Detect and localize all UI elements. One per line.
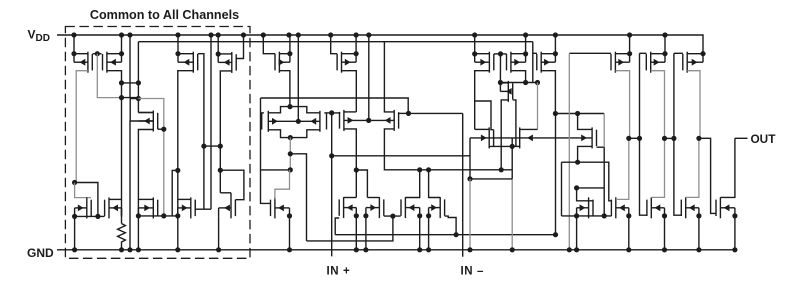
transistor N5 — [219, 197, 236, 218]
wire Tc source to GND — [664, 216, 666, 250]
wire P1 drain — [76, 71, 88, 183]
node GND c2 — [363, 247, 368, 252]
wire Te drain riser — [720, 138, 735, 197]
VDD rail junction x=178 — [175, 32, 180, 37]
wire N5 gate from P4 drain — [220, 170, 244, 200]
wire P11 drain down — [651, 71, 665, 139]
wire P5 drain down — [279, 71, 290, 106]
svg-text:IN +: IN + — [327, 266, 351, 278]
transistor T_b — [611, 197, 628, 218]
IN+ label — [327, 266, 351, 278]
wire N1 drain to gate bus — [75, 183, 98, 217]
VDD rail junction x=74 — [71, 32, 76, 37]
node GND tc — [662, 247, 667, 252]
wire M10 source — [578, 146, 593, 162]
node GND d1 — [417, 247, 422, 252]
node IN+ gates — [329, 110, 334, 115]
wire M6 gate link — [513, 100, 516, 130]
wire C1 gate down — [335, 218, 339, 235]
node M6 drain fold — [499, 167, 504, 172]
wire N1 gate loop — [75, 183, 91, 198]
wire C2 gate bus — [384, 215, 401, 217]
wire M8 gate riser — [475, 101, 494, 130]
wire N6 drain up — [275, 170, 290, 200]
node P9 source — [553, 51, 558, 56]
wire mirror link c — [665, 137, 674, 139]
wire VDD to P7 — [474, 35, 476, 54]
VDD rail junction x=243.5 — [241, 32, 246, 37]
node GND tb — [626, 247, 631, 252]
node GND d2 — [426, 247, 431, 252]
transistor N2 — [105, 197, 122, 218]
wire P5 gate drop — [263, 35, 275, 54]
wire IN- cross wire — [261, 98, 409, 113]
node M10 source — [575, 160, 580, 165]
svg-text:IN –: IN – — [461, 266, 485, 278]
node fold b — [288, 167, 293, 172]
wire link y97.6 — [122, 97, 139, 99]
wire P10 gate — [569, 52, 611, 54]
resistor R1 — [118, 224, 126, 244]
node P12 source — [700, 51, 705, 56]
VDD rail junction x=474.7 — [472, 32, 477, 37]
wire M5 source lead — [137, 99, 139, 113]
wire mirror col b — [639, 53, 641, 138]
wire VDD drop pair B — [368, 35, 370, 120]
transistor Q_B2 — [369, 110, 399, 131]
wire VDD to P5 source — [289, 35, 291, 54]
wire fold bus y155.8 — [332, 155, 470, 157]
wire B2 top — [384, 42, 394, 112]
wire D2 source to GND — [428, 216, 430, 250]
node P3 gate link a — [201, 144, 206, 149]
node P3 gate link b — [218, 144, 223, 149]
node Tc source — [662, 213, 667, 218]
node C1 source — [354, 213, 359, 218]
transistor Q_A2 — [298, 111, 326, 132]
wire M5 drain down — [138, 130, 153, 216]
wire Td drain riser — [686, 138, 699, 197]
node Td source — [696, 213, 701, 218]
OUT label — [751, 132, 777, 146]
wire mirror bus y82 — [500, 82, 537, 84]
transistor P1 — [74, 52, 92, 73]
node P8 drain — [523, 80, 528, 85]
VDD rail junction x=211 — [208, 32, 213, 37]
wire M6 drain down — [501, 100, 508, 170]
transistor T_c — [647, 197, 665, 218]
node in- mirror tap — [467, 176, 472, 181]
wire P6 drain down — [342, 71, 357, 112]
wire M6 source riser — [499, 54, 501, 83]
node pair A bottom — [288, 135, 293, 140]
transistor M9 — [516, 127, 520, 148]
node GND ta — [574, 247, 579, 252]
node M10 drain — [575, 111, 580, 116]
wire y162 bus — [562, 162, 612, 201]
wire gate col top — [603, 114, 605, 148]
VDD rail junction x=218.2 — [216, 32, 221, 37]
VDD rail junction x=121.5 — [119, 32, 124, 37]
node GND bias col — [127, 247, 132, 252]
transistor P5 — [275, 52, 290, 73]
GND rail — [57, 249, 737, 251]
wire VDD column x211 — [210, 35, 212, 209]
wire bias wire drop — [532, 42, 534, 83]
wire P4 gate to VDD — [236, 35, 243, 59]
node D2 drain — [426, 167, 431, 172]
wire P9 drain down — [541, 71, 555, 114]
wire VDD bias column — [129, 35, 131, 98]
node fold a — [288, 151, 293, 156]
wire VDD to P8 — [525, 35, 527, 54]
node M6 source — [498, 80, 503, 85]
node C drains — [354, 167, 359, 172]
wire M8 drain lead — [475, 128, 490, 130]
wire B1 bottom chain — [344, 129, 356, 198]
transistor Q_D1 — [401, 197, 420, 218]
GND label — [27, 246, 54, 260]
transistor N6 — [271, 197, 290, 218]
wire P12 gate — [674, 52, 683, 54]
node GND p10gate — [567, 247, 572, 252]
wire fold to bus — [290, 154, 306, 241]
node M9 drain tap — [535, 80, 540, 85]
wire N4 source to GND — [177, 216, 179, 250]
wire N4 gate link — [195, 208, 211, 210]
node M5 gate — [161, 127, 166, 132]
transistor Q_D2 — [429, 197, 445, 218]
node GND n3 — [136, 247, 141, 252]
wire M5 gate tap — [158, 128, 164, 130]
wire VDD drop pair A — [297, 35, 299, 121]
wire N4 gate bar drop — [194, 200, 196, 210]
transistor P8 — [507, 52, 526, 73]
wire resistor to GND — [121, 244, 123, 250]
wire D2 drain lead — [429, 170, 441, 198]
wire N3 source bus — [138, 215, 177, 217]
wire P7 drain down — [475, 71, 490, 130]
node GND td — [696, 247, 701, 252]
node mirror b2 — [637, 136, 642, 141]
wire A1 gate column — [261, 98, 271, 203]
wire P3 drain down — [178, 71, 194, 216]
node P3 source — [175, 51, 180, 56]
wire mirror col c — [673, 53, 675, 138]
wire C1 drain lead — [344, 197, 357, 199]
wire gate node down — [97, 54, 121, 98]
wire cross link y82.9 — [122, 82, 139, 84]
wire P10 drain down — [615, 71, 629, 139]
svg-text:OUT: OUT — [751, 132, 777, 146]
wire Ta drain to gate bus — [577, 187, 605, 189]
node mirror c2 — [671, 136, 676, 141]
node bias bus end — [553, 232, 558, 237]
wire C drain link — [356, 170, 367, 198]
wire C1 source to GND — [355, 216, 357, 250]
wire N5 drain lead — [220, 192, 231, 194]
wire fold left — [261, 169, 291, 171]
wire IN- top wire — [409, 112, 463, 114]
svg-text:Common to All Channels: Common to All Channels — [90, 8, 239, 22]
wire B1 gate — [332, 112, 340, 113]
wire P9 gate — [533, 52, 537, 54]
node out mirror — [696, 136, 701, 141]
node M8M9 source — [510, 144, 515, 149]
node N3 source — [136, 213, 141, 218]
node P8 source — [523, 51, 528, 56]
wire N3 gate stub — [172, 170, 178, 216]
node P11 source — [662, 51, 667, 56]
wire Td source to GND — [698, 216, 700, 250]
wire out mirror link — [699, 138, 716, 213]
wire C2 drain lead — [367, 197, 379, 199]
wire mirror col c low — [674, 138, 681, 215]
long bias wire — [138, 41, 532, 43]
wire VDD to P6 source — [355, 35, 357, 54]
node N6 source — [287, 213, 292, 218]
transistor N1 — [75, 197, 92, 218]
node N1 drain — [72, 180, 77, 185]
node mirror b1 — [626, 136, 631, 141]
wire VDD to P3 source — [177, 35, 179, 54]
wire tail to GND — [511, 179, 513, 250]
wire M8M9 body link — [511, 138, 513, 147]
node GND n6 — [287, 247, 292, 252]
VDD rail junction x=263.3 — [261, 32, 266, 37]
node GND resistor — [119, 247, 124, 252]
transistor P11 — [646, 52, 665, 73]
node GND c1 — [354, 247, 359, 252]
node D1 source — [417, 213, 422, 218]
wire P7 gate — [494, 53, 501, 55]
wire N3 drain lead — [138, 198, 153, 200]
wire pair A bottom bridge — [268, 130, 320, 138]
body wire M8 M9 M10 — [470, 135, 592, 179]
wire B2 gate — [399, 112, 409, 114]
wire C2 source to GND — [365, 216, 367, 250]
node P2 source — [119, 51, 124, 56]
wire P10 gate col — [568, 53, 570, 250]
wire Ta source to GND — [576, 216, 578, 250]
transistor P2 — [103, 52, 122, 73]
node mirror c1 — [662, 136, 667, 141]
wire P3 gate down — [198, 54, 204, 210]
transistor T_a — [577, 197, 593, 218]
wire P11 gate — [640, 52, 647, 54]
wire N2 tie corner — [121, 208, 123, 224]
node GND te — [732, 247, 737, 252]
transistor M5 — [138, 111, 157, 132]
wire N3 source to GND — [137, 216, 139, 250]
wire bias column to GND — [129, 121, 131, 250]
VDD rail junction x=289 — [286, 32, 291, 37]
transistor P3 — [178, 52, 198, 73]
node N1 source — [72, 214, 77, 219]
wire D2 gate jog — [445, 216, 457, 235]
wire B1 top — [344, 111, 356, 113]
transistor Q_C1 — [339, 197, 356, 218]
wire N1 source to GND — [74, 216, 76, 249]
node C2 source — [363, 213, 368, 218]
wire y178 link — [470, 178, 512, 180]
transistor P4 — [218, 52, 236, 73]
transistor P6 — [337, 52, 356, 73]
transistor Q_B1 — [340, 110, 369, 131]
node P4 drain cascode — [218, 168, 223, 173]
wire M9 drain riser — [537, 83, 539, 130]
transistor Q_C2 — [366, 197, 384, 218]
wire N4 drain lead — [178, 198, 191, 200]
wire P12 drain down — [687, 71, 700, 139]
wire Tb source to GND — [628, 216, 630, 250]
node GND n5 — [216, 247, 221, 252]
wire VDD to P4 source — [217, 35, 219, 54]
wire Tc drain riser — [651, 138, 664, 197]
wire N1 source bus — [75, 215, 105, 217]
wire M5 body tie — [130, 99, 153, 122]
node cc top — [553, 111, 558, 116]
VDD rail junction x=356.1 — [354, 32, 359, 37]
node P4 source — [216, 51, 221, 56]
VDD rail — [57, 35, 703, 54]
wire A2 gate — [324, 112, 331, 114]
node GND tail — [510, 247, 515, 252]
node P1 source — [71, 51, 76, 56]
node D1 drain — [417, 167, 422, 172]
transistor M10 — [592, 127, 596, 148]
wire VDD to P2 source — [121, 35, 123, 54]
node D2 source — [426, 213, 431, 218]
node CD gate bus — [390, 214, 395, 219]
wire P8 gate — [501, 53, 507, 55]
wire OUT stub — [735, 137, 748, 139]
wire VDD to P11 — [664, 35, 666, 54]
wire N5 drain corner — [230, 193, 232, 198]
wire A1 gate tap — [261, 112, 264, 114]
VDD rail junction x=130 — [127, 32, 132, 37]
node pair A top — [287, 104, 292, 109]
dashed box common block — [65, 27, 250, 259]
wire P2 drain down — [107, 71, 122, 216]
VDD rail junction x=525.6 — [523, 32, 528, 37]
node Tb source — [626, 213, 631, 218]
transistor M6 — [500, 81, 512, 102]
node P1 P2 gate — [95, 51, 100, 56]
transistor N3 — [138, 197, 157, 218]
wire D1 source to GND — [419, 216, 421, 250]
transistor P10 — [611, 52, 630, 73]
wire bias wire top corner — [137, 42, 139, 99]
svg-text:GND: GND — [27, 246, 54, 260]
VDD rail junction x=330.7 — [328, 32, 333, 37]
node GND tap — [467, 247, 472, 252]
wire VDD to P1 source — [73, 35, 75, 54]
IN- label — [461, 266, 485, 278]
node P7P8 gate — [498, 51, 503, 56]
wire Ta gate loop — [577, 188, 594, 201]
wire M5 gate chain — [138, 99, 163, 216]
wire cc bus — [555, 113, 604, 115]
wire cc bus tail — [555, 114, 557, 235]
wire M10 drain lead — [578, 114, 593, 130]
node P2 drain y97.6 — [119, 95, 124, 100]
wire N6 source to GND — [289, 216, 291, 250]
wire y162 riser — [561, 162, 563, 216]
transistor N4 — [178, 197, 195, 218]
node N4 source — [175, 213, 180, 218]
wire IN+ lead — [331, 113, 333, 257]
node P3 drain cascode — [175, 168, 180, 173]
transistor T_e — [716, 197, 735, 218]
transistor P7 — [475, 52, 494, 73]
node P10 source — [627, 51, 632, 56]
wire VDD to P10 — [629, 35, 631, 54]
node M5 source — [136, 96, 141, 101]
wire P1 P2 gates — [93, 53, 102, 55]
wire M9 drain lead — [520, 128, 538, 130]
transistor M8 — [489, 127, 493, 148]
node Te source — [732, 213, 737, 218]
wire pair A top bridge — [268, 107, 320, 113]
node P2 drain y82.9 — [119, 80, 124, 85]
VDD rail junction x=665 — [662, 32, 667, 37]
wire Te source to GND — [734, 216, 736, 250]
node Ta drain — [574, 185, 579, 190]
wire tap to GND — [469, 179, 471, 250]
transistor T_d — [681, 197, 699, 218]
wire gate col bottom — [603, 147, 605, 216]
VDD rail junction x=555.4 — [553, 32, 558, 37]
wire B2 bottom chain — [384, 129, 512, 170]
node on IN+ y155.8 — [329, 153, 334, 158]
node Ta gate bus — [602, 213, 607, 218]
wire M8M9 tail down — [511, 146, 513, 179]
wire P6 gate drop — [331, 35, 338, 54]
wire VDD to P9 — [554, 35, 556, 54]
transistor P12 — [683, 52, 703, 73]
node N1N2 gate — [95, 214, 100, 219]
node N3 gate — [161, 213, 166, 218]
wire Tb drain riser — [616, 138, 629, 199]
wire pair A fold chain — [289, 138, 291, 170]
wire D1 drain lead — [405, 170, 419, 198]
VDD rail junction x=629.6 — [627, 32, 632, 37]
transistor Q_A1 — [262, 111, 299, 132]
node M5 col y82.9 — [136, 80, 141, 85]
wire M9 source — [512, 145, 520, 147]
node P7 source — [472, 51, 477, 56]
wire mirror link b — [629, 137, 640, 139]
node IN- gates — [406, 111, 411, 116]
wire gate-drain link y146 — [204, 145, 220, 147]
VDD rail junction x=368.8 — [366, 32, 371, 37]
title Common to All Channels — [90, 8, 239, 22]
node Ta source — [574, 213, 579, 218]
node P5 source — [287, 51, 292, 56]
node pair A common — [296, 119, 301, 124]
node D2 gate bus — [454, 232, 459, 237]
wire Ta source bus — [562, 215, 612, 217]
wire M10 gate loop — [597, 146, 605, 148]
node GND n1 — [72, 247, 77, 252]
wire IN- lead — [462, 113, 464, 256]
wire N5 source to GND — [218, 216, 220, 249]
wire P4 drain down — [220, 71, 232, 193]
wire mirror col b low — [640, 138, 647, 215]
VDD rail junction x=298.3 — [296, 32, 301, 37]
node pair B common — [366, 118, 371, 123]
